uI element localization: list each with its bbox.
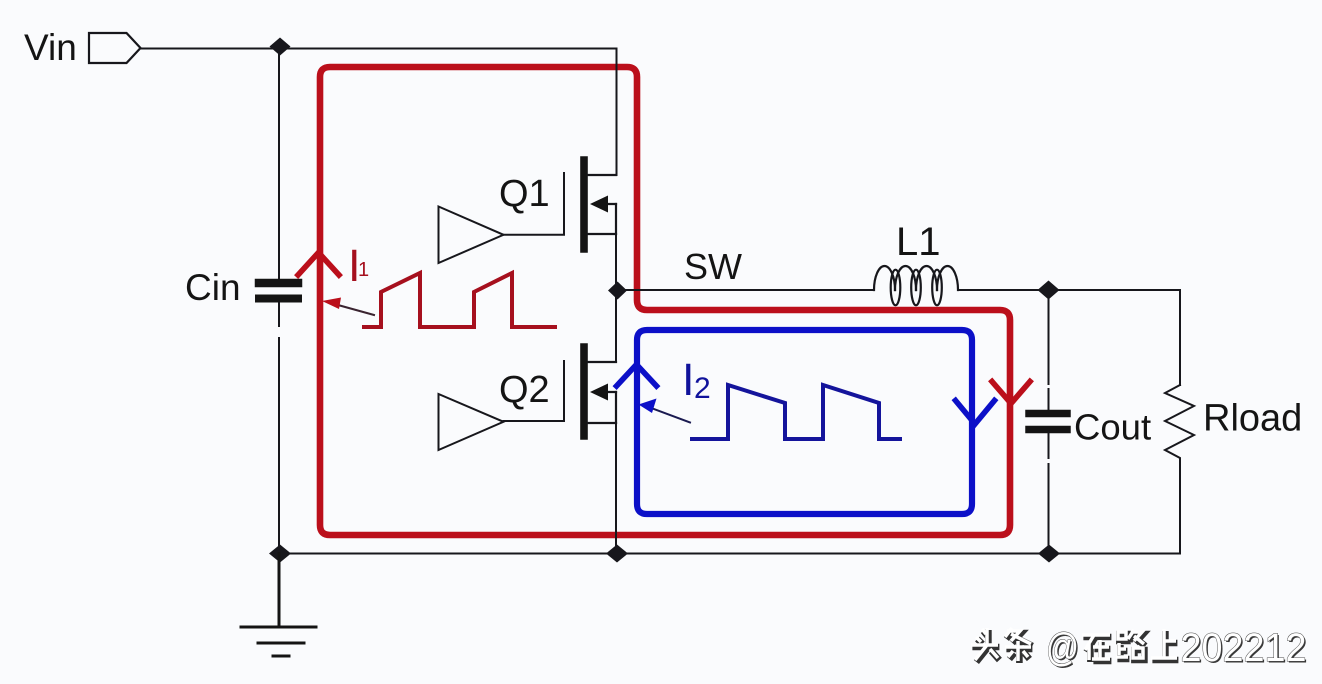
I2 callout arrow: [650, 408, 690, 423]
node: bottom-left junction: [269, 545, 291, 563]
wire: Q2 source down to ground rail: [615, 423, 617, 554]
transistor Q1 (high-side MOSFET): [584, 160, 616, 249]
wire: Cout bottom lead: [1048, 433, 1050, 554]
blue current loop I2: [637, 330, 972, 514]
resistor Rload: [1165, 385, 1194, 554]
wire: Q2 gate drive: [504, 361, 565, 421]
wire: Cin bottom lead: [278, 303, 280, 554]
node SW junction: [608, 282, 627, 300]
wire: top rail from Vin port to Q1 drain: [140, 49, 617, 176]
I2 waveform (blue): [692, 385, 900, 439]
red current arrow down (on right leg of I1 loop): [992, 382, 1030, 404]
watermark CJK glyph strokes: dark outline layer: [972, 630, 1178, 663]
watermark: [971, 626, 1308, 672]
node: Q2 ground junction: [606, 545, 628, 563]
I1 callout arrow: [338, 305, 374, 315]
svg-text:@: @: [1046, 626, 1079, 670]
capacitor Cout: [1029, 414, 1067, 430]
ground: [241, 554, 316, 657]
op-amp buffer driver of Q2: [439, 394, 504, 450]
capacitor Cin: [259, 283, 298, 299]
red current arrow up (on left leg of I1 loop): [298, 253, 339, 276]
blue current arrow up (on left leg of I2 loop): [617, 365, 657, 387]
transistor Q2 (low-side MOSFET): [584, 347, 616, 436]
svg-text:Q2: Q2: [499, 369, 550, 411]
svg-text:SW: SW: [684, 246, 742, 287]
svg-text:Q1: Q1: [499, 173, 550, 215]
bottom ground rail wire: [280, 553, 1180, 555]
wire: Cout top lead: [1048, 290, 1050, 410]
wire: Q1 source down to SW: [615, 234, 617, 290]
wire: Q1 gate drive: [504, 173, 565, 235]
wire: Cin branch (top rail down to Cin top plate): [278, 49, 280, 279]
svg-text:202212: 202212: [1181, 626, 1307, 670]
op-amp buffer driver of Q1: [439, 207, 504, 264]
svg-text:Vin: Vin: [24, 27, 77, 68]
svg-text:I: I: [682, 354, 695, 405]
node: Vin junction: [270, 38, 291, 56]
red current loop I1: [320, 67, 1010, 535]
watermark @ and digits: shadow layer: [1048, 628, 1309, 672]
Vin port connector: [89, 33, 141, 63]
node: output junction: [1038, 281, 1060, 300]
watermark CJK glyph strokes: white face layer: [971, 628, 1177, 661]
svg-text:2: 2: [694, 372, 711, 405]
wire: SW node to inductor: [617, 289, 874, 291]
svg-text:Cout: Cout: [1074, 407, 1151, 448]
inductor L1: [874, 266, 958, 305]
svg-text:1: 1: [358, 259, 369, 281]
svg-text:L1: L1: [896, 220, 941, 264]
wire: SW down to Q2 drain: [615, 290, 617, 362]
svg-text:Cin: Cin: [185, 267, 241, 308]
node: Cout ground junction: [1038, 545, 1060, 563]
svg-text:Rload: Rload: [1203, 398, 1302, 440]
wire: inductor to output node to Rload: [958, 290, 1180, 385]
watermark @ and digits: white face: [1046, 626, 1307, 670]
I1 waveform (red): [364, 273, 555, 327]
blue current arrow down (on right leg of I2 loop): [956, 401, 995, 425]
